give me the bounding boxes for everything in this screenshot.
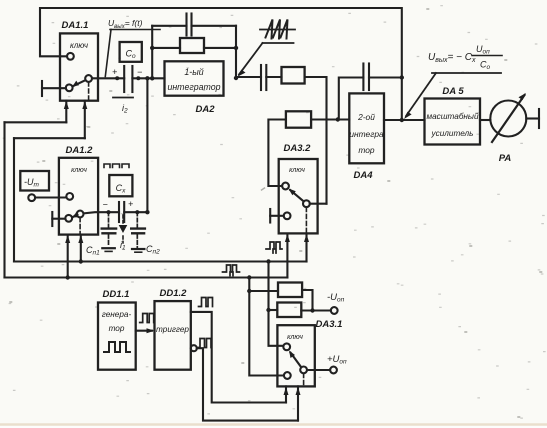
wire: rail A to resistor R1 [249, 290, 278, 292]
wire: riser from Cx up to DA2 summing node [146, 78, 148, 212]
terminal: +Uoп [330, 367, 337, 374]
switch U=DA3.1 block [277, 325, 314, 386]
T-bar input to DA3.2 lower-left [269, 209, 271, 223]
node: DA4 output [400, 118, 404, 122]
pin: DA3.1 top contact [283, 343, 290, 350]
wire: R1 right lead down to junction [302, 290, 312, 311]
svg-text:DA1.1: DA1.1 [62, 20, 89, 31]
svg-text:+: + [112, 67, 117, 77]
svg-text:тор: тор [358, 145, 375, 155]
wire+arrow: bus 2 rises into DA3.2 bottom left [286, 234, 288, 278]
wire: DA1.1 control jog to outer left rail 1 [5, 121, 67, 123]
square-pulse symbol at Q output [199, 298, 213, 307]
triangle-wave symbol with pointer to DA2 output [260, 29, 295, 31]
wire: rail A from bus 2 down to DA3.1 lower-left contact [249, 278, 284, 376]
generator U=DD1.1 [98, 303, 136, 370]
svg-text:Uоп: Uоп [476, 44, 490, 56]
amplifier U=DA5 scale amplifier [425, 99, 481, 145]
source box -Um [20, 171, 49, 191]
capacitor: coupling cap after DA2 [260, 65, 262, 90]
wire: resistor to DA4 input node [311, 118, 349, 120]
current arrow i1 [122, 215, 124, 223]
node: summing junction dots [115, 76, 119, 80]
wire: DA4 feedback left riser [339, 78, 364, 120]
svg-text:генера-: генера- [102, 310, 132, 319]
svg-text:PA: PA [499, 153, 512, 164]
svg-text:масштабный: масштабный [426, 112, 478, 121]
wire: DA2 feedback top branch (capacitor) [152, 25, 236, 27]
svg-text:+: + [128, 199, 133, 209]
scan artifact bottom edge line [0, 423, 547, 425]
switch U=DA1.2 block [59, 158, 98, 235]
wire: DA3.2 common contact to riser [310, 203, 327, 205]
inversion bubble on DD1.2 Q-bar output [191, 345, 197, 351]
svg-text:−: − [137, 67, 142, 77]
switch blade DA3.1 [291, 353, 302, 368]
wire: capacitor to DA2 input [132, 77, 164, 79]
control arrow into DA3.1 bottom right (from DD1.2 Q-bar) [297, 386, 299, 420]
svg-text:ключ: ключ [70, 41, 88, 50]
svg-text:Cо: Cо [480, 60, 491, 72]
box label Cx [109, 175, 132, 196]
pin: DA3.2 lower-left contact [284, 212, 291, 219]
pin: DA3.2 left contact [282, 183, 289, 190]
op-amp U=DA2 1st integrator [165, 61, 224, 95]
wire+arrow: DD1.1 output to DD1.2 [136, 330, 152, 332]
wire: top feedback loop from DA4 output node up over the page to DA1.1 input terminal [40, 8, 402, 120]
svg-text:Uвых= f(t): Uвых= f(t) [108, 18, 143, 30]
wire: input to DA1.1 left contact [42, 87, 66, 89]
pin: DA1.1 top contact [67, 53, 74, 60]
resistor in DA2 feedback [152, 47, 180, 49]
wire: DA1.1 output to capacitor Co node [92, 77, 124, 79]
wire: bus 1 (upper horizontal control bus) [14, 260, 307, 262]
svg-text:интегратор: интегратор [167, 82, 220, 92]
svg-text:i2: i2 [122, 103, 128, 115]
current label i2 [113, 97, 133, 99]
svg-text:-Uоп: -Uоп [327, 292, 345, 304]
pin: DA1.1 common contact [85, 75, 92, 82]
control arrow into DA1.1 bottom left [65, 101, 67, 123]
wire: resistor right, down to DA3.2 common [305, 77, 327, 204]
dashed marks above Cx box [104, 164, 129, 168]
pin: DA1.1 left contact [66, 84, 73, 91]
svg-text:Cп1: Cп1 [86, 245, 100, 257]
node: rail B tap to resistor R2 [266, 308, 270, 312]
svg-text:1-ый: 1-ый [184, 67, 203, 77]
capacitor Cx (series, with polarity marks) [118, 202, 120, 222]
svg-text:Cх: Cх [116, 183, 127, 195]
wire: outer left rail 2 (to bus 1) [13, 138, 15, 261]
op-amp U=DA4 2nd integrator [349, 93, 384, 163]
svg-text:-Um: -Um [24, 177, 40, 189]
wire: DA4 feedback right leg [369, 76, 402, 78]
wire: DD1.2 Q output down and around to DA3.1 control left [191, 312, 286, 403]
switch U=DA1.1 block [60, 33, 98, 100]
svg-text:усилитель: усилитель [431, 129, 474, 138]
wire: bus 2 (lower horizontal control bus) [5, 276, 288, 278]
svg-text:DA3.1: DA3.1 [316, 319, 343, 330]
square-pulse symbol inside DD1.1 [104, 342, 130, 352]
svg-text:ключ: ключ [71, 167, 87, 174]
svg-text:DA 5: DA 5 [442, 86, 464, 97]
svg-text:DD1.1: DD1.1 [103, 289, 130, 300]
svg-text:+Uоп: +Uоп [327, 354, 347, 366]
capacitor Cп2 to ground (dashed stems) [136, 212, 138, 227]
input terminal T-bar [41, 81, 43, 96]
pin: DA3.2 common contact [303, 200, 310, 207]
svg-text:Cп2: Cп2 [146, 244, 160, 256]
wire: DA1.2 common output to Cx capacitor [84, 212, 120, 213]
capacitor C0 (series, with polarity marks) [123, 66, 125, 92]
control arrow into DA1.2 bottom left (from bus 2) [67, 235, 69, 278]
wire: -Um to DA1.2 upper contact [35, 196, 66, 198]
wire: DA2 feedback right riser to output node [235, 26, 237, 78]
node: rail A tap to resistor R1 [247, 289, 251, 293]
svg-text:тор: тор [109, 324, 125, 333]
pin: DA1.2 common contact [77, 211, 84, 218]
terminal: -Um output [28, 194, 35, 201]
resistor into DA4 [286, 111, 311, 127]
dashed control stem DA1.1 [88, 82, 90, 101]
svg-text:DA1.2: DA1.2 [66, 145, 94, 156]
wire: rail B from bus 1 down to DA3.1 top contact [269, 262, 284, 346]
svg-text:триггер: триггер [156, 325, 189, 334]
resistor R2 (to -Uoп) [277, 303, 301, 318]
svg-text:интегра: интегра [349, 129, 384, 139]
switch blade DA3.2 [290, 190, 303, 201]
box label Co [120, 42, 142, 62]
meter PA (circle with diagonal arrow) [490, 101, 526, 137]
T-bar input to DA1.2 lower-left [51, 212, 53, 226]
square-pulse symbol near bus 1 (left of DA3.2) [266, 242, 282, 253]
pin: DA3.1 common contact [300, 367, 307, 374]
switch blade DA1.1 [74, 80, 86, 86]
wire: lower resistor loop from DA3.2 left contact up to DA4 input [268, 120, 286, 187]
resistor R1 (to -Uoп) [278, 283, 302, 298]
square-pulse symbol at Q-bar output [198, 339, 212, 348]
svg-text:Cо: Cо [125, 49, 136, 61]
dashed control stem DA1.2 [79, 218, 81, 235]
capacitor: DA4 integrating cap [362, 64, 364, 91]
wire: DA5 to meter PA [480, 119, 490, 121]
svg-text:Uвых= − Cх: Uвых= − Cх [428, 52, 476, 64]
wire: DA1.1 control jog to outer left rail 2 [14, 137, 85, 139]
wire: meter output with T-bar terminal [526, 117, 539, 119]
node: bus2 tap for rail A [247, 275, 251, 279]
capacitor Cп1 to ground (dashed stems) [108, 212, 110, 227]
switch blade DA1.2 [73, 215, 77, 217]
node: DA2 output [234, 76, 238, 80]
ground (Cп1) [102, 247, 115, 249]
wire+arrow: bus 1 rises into DA3.2 bottom right [305, 234, 307, 262]
control arrow into DA3.1 bottom left (from DD1.2 Q) [285, 386, 287, 402]
wire: DA4 output to DA5 [384, 119, 425, 121]
switch U=DA3.2 block [279, 159, 318, 233]
wire: DA2 output to coupling capacitor [236, 77, 261, 78]
svg-text:ключ: ключ [289, 167, 305, 174]
wire: DD1.2 Q-bar output down and around to DA3.1 control right [197, 348, 298, 420]
svg-text:DA4: DA4 [353, 170, 373, 181]
resistor after DA2 [282, 67, 305, 84]
node: bus1 tap for rail B [266, 259, 270, 263]
svg-text:DA2: DA2 [195, 104, 215, 115]
terminal: -Uoп [331, 307, 338, 314]
svg-text:−: − [103, 200, 108, 210]
capacitor: DA2 integrating cap [185, 14, 187, 36]
pin: DA1.2 upper-left contact [66, 193, 73, 200]
dashed control stem DA3.2 [305, 207, 307, 233]
wire: cap to resistor [266, 76, 281, 78]
flip-flop U=DD1.2 [155, 301, 191, 370]
square-pulse symbol between buses [223, 265, 240, 276]
ground (Cп2) [132, 248, 144, 250]
control arrow into DA1.1 bottom right [84, 101, 86, 139]
wire: Cx to summing riser [124, 211, 147, 213]
svg-text:DA3.2: DA3.2 [284, 143, 312, 154]
pin: DA3.1 lower-left contact [284, 372, 291, 379]
wire: DA3.1 common to +Uoп terminal [307, 369, 330, 371]
dashed control stem DA3.1 [303, 374, 305, 387]
node: DA4 input [336, 117, 340, 121]
pin: DA1.2 lower-left contact [65, 215, 72, 222]
svg-text:ключ: ключ [287, 334, 303, 341]
wire: R2 to -Uoп terminal [301, 309, 331, 311]
wire: rail B to resistor R2 [269, 309, 278, 311]
square-pulse symbol on DD1.1-DD1.2 wire [140, 314, 154, 323]
control arrow into DA1.2 bottom right (from bus 1) [80, 235, 82, 262]
wire: outer left rail 1 (to bus 2) [3, 122, 5, 277]
svg-text:DD1.2: DD1.2 [160, 288, 188, 299]
formula underline with pointer arrow to DA4 output node [432, 72, 501, 74]
wire: DA2 feedback left riser [151, 26, 153, 79]
svg-text:2-ой: 2-ой [357, 112, 375, 122]
